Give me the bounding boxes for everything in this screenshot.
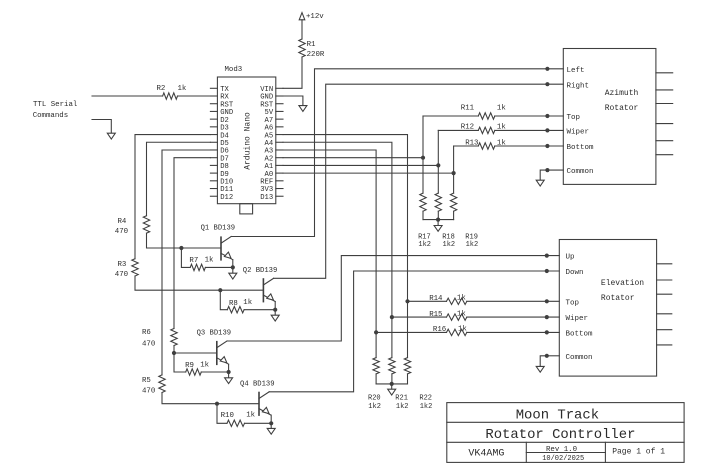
label date 10/02/2025 <box>542 455 584 463</box>
node Q1 base junction <box>179 246 183 250</box>
label Q1 BD139 <box>201 225 236 233</box>
node Q4 base junction <box>215 402 219 406</box>
ground azimuth Common <box>539 179 541 181</box>
svg-text:Common: Common <box>567 168 594 176</box>
svg-text:R22: R22 <box>419 395 432 403</box>
svg-text:Mod3: Mod3 <box>225 66 243 74</box>
wire serial input to R2 <box>92 95 163 97</box>
title block column line 1 <box>525 442 527 462</box>
svg-text:R20: R20 <box>368 395 381 403</box>
ground Q4 <box>270 423 272 428</box>
svg-text:R15: R15 <box>429 311 442 319</box>
svg-text:Top: Top <box>567 114 581 122</box>
svg-text:Wiper: Wiper <box>566 315 589 323</box>
ground arduino GND <box>302 105 304 107</box>
svg-text:R13: R13 <box>465 139 478 147</box>
svg-text:R1: R1 <box>307 41 316 49</box>
wire junction to R8 <box>220 290 227 310</box>
svg-text:1k2: 1k2 <box>396 403 409 411</box>
ground Q1 <box>232 267 234 273</box>
wire A2 riser <box>422 116 424 193</box>
svg-text:+12v: +12v <box>306 13 324 21</box>
node R17-R19 ground junction <box>436 218 440 222</box>
svg-text:1k2: 1k2 <box>418 241 431 249</box>
node Q3 emitter junction <box>227 370 231 374</box>
svg-text:R16: R16 <box>433 326 446 334</box>
svg-text:TTL Serial: TTL Serial <box>33 101 78 109</box>
wire R19 tail <box>453 211 455 219</box>
label TTL Serial Commands <box>33 101 78 120</box>
wire azimuth Common to ground <box>540 170 547 180</box>
wire Q1 collector to azimuth Left <box>231 69 563 237</box>
svg-text:Q4 BD139: Q4 BD139 <box>240 380 275 388</box>
elevation Common pin stub <box>547 355 560 357</box>
svg-text:1k2: 1k2 <box>466 241 479 249</box>
label R21 1k2 <box>395 395 408 411</box>
node Q2 emitter junction <box>273 308 277 312</box>
label R1 220R <box>307 41 325 59</box>
transistor Q4 <box>258 393 260 416</box>
wire R1 to VIN <box>283 57 302 88</box>
resistor R18 <box>435 193 441 211</box>
label R13 1k <box>465 139 506 147</box>
svg-text:10/02/2025: 10/02/2025 <box>542 455 584 463</box>
resistor R15 1k <box>447 314 467 320</box>
label R11 1k <box>461 104 507 112</box>
wire A5 feedback <box>283 135 408 302</box>
svg-text:1k: 1k <box>458 326 467 334</box>
ground serial <box>110 132 112 134</box>
ground Q3 <box>228 372 230 378</box>
title block row line 2 <box>447 441 684 443</box>
svg-text:R12: R12 <box>461 124 474 132</box>
label Rev 1.0 <box>546 446 577 454</box>
wire D7 to R6 <box>174 158 210 329</box>
label R15 1k <box>429 310 466 318</box>
label Moon Track <box>516 408 599 424</box>
wire R20 tail <box>375 374 377 384</box>
title block row line 1 <box>447 421 684 423</box>
wire A0 feedback <box>283 172 454 174</box>
svg-text:R14: R14 <box>429 295 443 303</box>
transistor Q3 <box>216 342 218 365</box>
title block frame <box>447 403 684 463</box>
label VK4AMG <box>468 448 504 459</box>
ground R17-R19 <box>437 220 439 226</box>
label Q4 BD139 <box>240 380 275 388</box>
svg-text:R3: R3 <box>118 261 127 269</box>
wire R10 to Q4 emitter <box>245 422 272 424</box>
node R20-R22 ground junction <box>390 382 394 386</box>
svg-text:470: 470 <box>115 271 128 279</box>
wire serial ground stub <box>92 120 111 134</box>
svg-text:R21: R21 <box>395 395 408 403</box>
label R22 1k2 <box>419 395 432 411</box>
label Q2 BD139 <box>243 267 278 275</box>
label R6 470 <box>142 329 155 349</box>
resistor R17 <box>420 193 426 211</box>
svg-text:1k2: 1k2 <box>420 403 433 411</box>
resistor R9 1k <box>186 369 202 375</box>
svg-text:1k: 1k <box>178 85 187 93</box>
wire R17 tail <box>422 211 424 219</box>
svg-text:1k2: 1k2 <box>443 241 456 249</box>
label Rotator Controller <box>485 427 635 443</box>
label R12 1k <box>461 124 507 132</box>
wire R6 to Q3 base <box>174 346 217 354</box>
wire R12 to azimuth Wiper <box>495 129 564 131</box>
title block rev divider <box>526 452 605 454</box>
label R2 1k <box>157 85 187 93</box>
wire junction to R10 <box>217 404 227 424</box>
resistor R4 <box>143 216 149 234</box>
wire D4 to R3 <box>135 135 210 259</box>
svg-text:Q1 BD139: Q1 BD139 <box>201 225 236 233</box>
label R4 470 <box>115 218 128 236</box>
node Q3 base junction <box>172 351 176 355</box>
svg-text:Q3 BD139: Q3 BD139 <box>197 330 232 338</box>
svg-text:R4: R4 <box>118 218 127 226</box>
wire A3 feedback <box>283 150 376 332</box>
wire junction to R9 <box>174 353 186 372</box>
svg-text:220R: 220R <box>307 51 325 59</box>
label R7 1k <box>189 257 214 266</box>
elevation pin labels <box>566 254 594 362</box>
wire R13 to azimuth Bottom <box>495 145 564 147</box>
node A3 junction <box>374 330 378 334</box>
svg-text:Common: Common <box>566 354 593 362</box>
resistor R13 1k <box>478 143 495 149</box>
node A2 junction <box>421 156 425 160</box>
svg-text:1k: 1k <box>457 310 466 318</box>
wire Q3 collector to elevation Up <box>227 256 559 341</box>
wire R15 to elevation Wiper <box>467 316 560 318</box>
wire Q3 emitter down <box>228 364 230 372</box>
svg-text:470: 470 <box>142 387 155 395</box>
wire R2 to RX <box>178 95 211 97</box>
connector J1 Azimuth Rotator box <box>563 49 656 185</box>
svg-text:Rotator: Rotator <box>605 104 639 113</box>
arduino right pin stubs <box>276 87 283 89</box>
node Q2 base junction <box>218 288 222 292</box>
arduino left pin stubs <box>210 87 217 89</box>
wire R17-R19 common bar <box>423 219 454 221</box>
azimuth right side stubs <box>656 72 673 74</box>
wire A5 riser <box>407 301 409 357</box>
azimuth pin labels <box>567 67 595 176</box>
resistor R21 <box>389 358 395 374</box>
svg-text:Bottom: Bottom <box>567 144 595 152</box>
transistor Q2 <box>262 279 264 302</box>
node Q4 emitter junction <box>269 421 273 425</box>
label R3 470 <box>115 261 128 279</box>
svg-text:1k2: 1k2 <box>368 403 381 411</box>
ground R20-R22 <box>391 384 393 389</box>
wire R20-R22 common bar <box>376 383 407 385</box>
svg-text:Wiper: Wiper <box>567 129 590 137</box>
wire R22 tail <box>407 374 409 384</box>
label R20 1k2 <box>368 395 381 411</box>
resistor R11 1k <box>478 113 495 119</box>
resistor R20 <box>373 358 379 374</box>
label R10 1k <box>221 412 256 420</box>
svg-text:Bottom: Bottom <box>566 331 594 339</box>
resistor R8 1k <box>227 307 244 313</box>
azimuth pin junction dots <box>545 67 549 172</box>
svg-text:1k: 1k <box>243 299 252 307</box>
svg-text:R9: R9 <box>185 362 194 370</box>
arduino usb connector <box>240 204 253 214</box>
ground Q2 <box>274 310 276 316</box>
label R8 1k <box>229 299 253 308</box>
svg-text:Q2 BD139: Q2 BD139 <box>243 267 278 275</box>
label Azimuth Rotator <box>605 89 639 113</box>
svg-text:D13: D13 <box>260 194 273 202</box>
svg-text:Down: Down <box>566 269 584 277</box>
node A4 junction <box>390 315 394 319</box>
wire Q4 emitter down <box>270 415 272 423</box>
wire A4 feedback <box>283 142 392 317</box>
wire A1 feedback <box>283 164 438 166</box>
wire R15 row <box>392 316 447 318</box>
wire A0 riser <box>453 146 455 193</box>
wire GND pin <box>283 96 303 106</box>
connector J2 Elevation Rotator box <box>559 240 656 377</box>
wire A3 riser <box>375 332 377 357</box>
svg-text:R11: R11 <box>461 104 475 112</box>
wire R14 to elevation Top <box>467 300 560 302</box>
svg-text:1k: 1k <box>246 412 255 420</box>
node Q1 emitter junction <box>231 265 235 269</box>
power flag +12v <box>299 13 305 20</box>
resistor R6 <box>171 329 177 346</box>
label Arduino Nano <box>244 112 253 170</box>
wire junction to R7 <box>181 248 190 267</box>
svg-text:Rotator: Rotator <box>601 294 635 303</box>
resistor R14 1k <box>447 298 467 304</box>
resistor R19 <box>450 193 456 211</box>
resistor R22 <box>404 358 410 374</box>
wire Q1 emitter down <box>232 260 234 268</box>
elevation pin junction dots <box>545 254 549 358</box>
svg-text:Commands: Commands <box>33 112 68 120</box>
arduino right pin labels <box>260 86 274 202</box>
wire R13 row <box>454 145 479 147</box>
resistor R7 1k <box>190 264 205 270</box>
label Q3 BD139 <box>197 330 232 338</box>
svg-text:R5: R5 <box>142 377 151 385</box>
svg-text:Rotator Controller: Rotator Controller <box>485 427 635 443</box>
wire R14 row <box>408 300 447 302</box>
elevation right side stubs <box>657 263 672 265</box>
wire R3 to Q2 base <box>135 276 263 290</box>
label Page 1 of 1 <box>612 448 665 457</box>
node A0 junction <box>452 171 456 175</box>
svg-text:R2: R2 <box>157 85 166 93</box>
svg-text:R7: R7 <box>189 257 198 265</box>
label +12v <box>306 13 324 21</box>
svg-text:1k: 1k <box>200 362 209 370</box>
label R9 1k <box>185 362 210 371</box>
node A5 junction <box>405 299 409 303</box>
wire D6 to R5 <box>162 150 210 375</box>
wire R4 to Q1 base <box>147 233 222 248</box>
svg-text:Azimuth: Azimuth <box>605 89 639 98</box>
wire A4 riser <box>391 317 393 358</box>
op-amp U1 Arduino Nano Mod3 box <box>217 77 275 204</box>
svg-text:470: 470 <box>142 340 155 348</box>
wire elevation Common to ground <box>540 356 547 367</box>
title block column line 2 <box>604 442 606 462</box>
svg-text:1k: 1k <box>497 104 506 112</box>
label Mod3 <box>225 66 243 74</box>
label R16 1k <box>433 326 468 335</box>
resistor R1 <box>299 39 305 57</box>
svg-text:R10: R10 <box>221 412 234 420</box>
svg-text:Top: Top <box>566 299 580 307</box>
ground elevation Common <box>539 365 541 367</box>
label R14 1k <box>429 295 466 303</box>
svg-text:Right: Right <box>567 82 590 90</box>
svg-text:Up: Up <box>566 254 575 262</box>
resistor R5 <box>159 375 165 393</box>
resistor R2 1k <box>163 93 178 99</box>
label Elevation Rotator <box>601 279 644 303</box>
svg-text:Elevation: Elevation <box>601 279 644 288</box>
svg-text:Moon Track: Moon Track <box>516 408 599 424</box>
wire R21 tail <box>391 374 393 384</box>
svg-text:1k: 1k <box>457 295 466 303</box>
wire A1 riser <box>437 130 439 193</box>
svg-text:470: 470 <box>115 228 128 236</box>
svg-text:R6: R6 <box>142 329 151 337</box>
label R19 1k2 <box>465 233 478 249</box>
svg-text:Page 1 of 1: Page 1 of 1 <box>612 448 665 457</box>
label R17 1k2 <box>418 233 431 249</box>
wire R9 to Q3 emitter <box>201 371 228 373</box>
svg-text:D12: D12 <box>220 194 233 202</box>
azimuth Common pin stub <box>547 169 563 171</box>
svg-text:Left: Left <box>567 67 585 75</box>
resistor R16 1k <box>447 329 467 335</box>
wire R16 to elevation Bottom <box>467 331 560 333</box>
node A1 junction <box>436 163 440 167</box>
wire A2 feedback <box>283 157 423 159</box>
wire R11 to azimuth Top <box>495 115 564 117</box>
label R5 470 <box>142 377 155 396</box>
transistor Q1 <box>220 237 222 260</box>
wire D5 to R4 <box>147 142 211 215</box>
resistor R3 <box>132 259 138 276</box>
wire R11 row <box>423 115 478 117</box>
wire R16 row <box>376 331 446 333</box>
wire R18 tail <box>437 211 439 219</box>
svg-text:Arduino Nano: Arduino Nano <box>244 112 253 170</box>
svg-text:R8: R8 <box>229 300 238 308</box>
svg-text:VK4AMG: VK4AMG <box>468 448 504 459</box>
wire Q2 collector to azimuth Right <box>274 84 564 278</box>
wire Q2 emitter down <box>274 302 276 310</box>
wire R5 to Q4 base <box>162 393 259 404</box>
wire R7 to Q1 emitter <box>205 266 232 268</box>
wire R12 row <box>438 129 478 131</box>
resistor R10 1k <box>227 420 245 426</box>
wire R8 to Q2 emitter <box>244 309 275 311</box>
svg-text:1k: 1k <box>205 257 214 265</box>
svg-text:Rev 1.0: Rev 1.0 <box>546 446 577 454</box>
label R18 1k2 <box>442 233 455 249</box>
wire Q4 collector to elevation Down <box>269 271 559 392</box>
arduino left pin labels <box>220 86 234 202</box>
resistor R12 1k <box>478 127 495 133</box>
